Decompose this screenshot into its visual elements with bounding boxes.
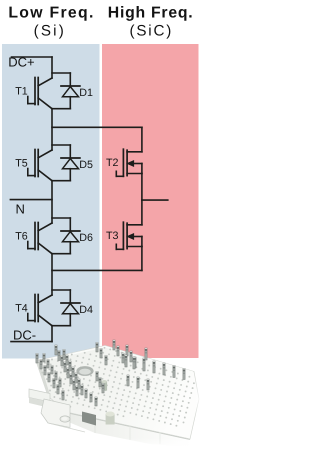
IGBT T1 (28, 78, 52, 109)
svg-text:DC+: DC+ (8, 54, 34, 69)
branch wire to T2 drain (52, 126, 142, 128)
svg-text:T4: T4 (15, 303, 28, 315)
right rail wire T2 source to output (141, 174, 143, 201)
left rail wire T1 collector (51, 57, 53, 78)
svg-text:T1: T1 (15, 86, 28, 98)
power module photo (29, 340, 201, 450)
svg-text:(SiC): (SiC) (130, 23, 174, 40)
svg-text:T5: T5 (15, 158, 28, 170)
svg-text:T3: T3 (106, 230, 119, 242)
svg-text:D5: D5 (79, 159, 93, 171)
DC- terminal wire (11, 341, 52, 343)
IGBT T5 (28, 150, 52, 181)
freewheel diode D5 (52, 145, 80, 181)
left rail wire T6-T4 (51, 254, 53, 295)
bottom tie wire to left rail (52, 269, 142, 271)
left rail wire T1-T5 (51, 109, 53, 150)
DC+ terminal wire (12, 56, 53, 58)
left rail wire T5-T6 (51, 181, 53, 223)
svg-text:Low Freq.: Low Freq. (8, 5, 94, 22)
N terminal wire (10, 199, 52, 201)
Si low-frequency region (blue) (2, 44, 100, 359)
svg-text:D1: D1 (79, 87, 93, 99)
svg-text:N: N (16, 201, 25, 216)
freewheel diode D6 (52, 218, 80, 254)
MOSFET T3 (116, 222, 142, 249)
right rail wire T3 source down (141, 247, 143, 271)
svg-text:D4: D4 (79, 304, 93, 316)
svg-text:T2: T2 (106, 157, 119, 169)
right rail wire output to T3 drain (141, 200, 143, 225)
SiC high-frequency region (pink) (102, 44, 199, 358)
freewheel diode D1 (52, 73, 80, 109)
output branch wire (142, 199, 168, 201)
IGBT T4 (28, 295, 52, 326)
IGBT T6 (28, 223, 52, 254)
left rail wire T4-DC- (51, 326, 53, 342)
svg-text:D6: D6 (79, 232, 93, 244)
svg-text:T6: T6 (15, 231, 28, 243)
svg-text:(Si): (Si) (34, 23, 66, 40)
svg-text:High Freq.: High Freq. (108, 5, 194, 22)
freewheel diode D4 (52, 290, 80, 326)
MOSFET T2 (116, 149, 142, 176)
svg-text:DC-: DC- (13, 327, 36, 342)
